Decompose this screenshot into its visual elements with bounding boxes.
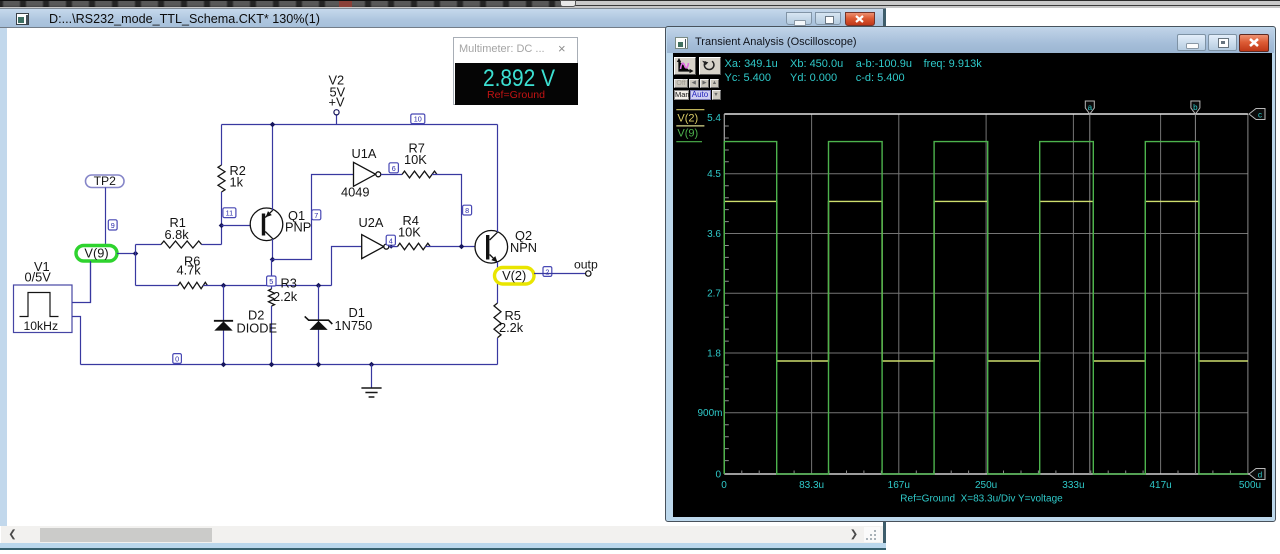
wire V(9) down to V1	[90, 261, 92, 302]
wire TP2 down	[105, 188, 107, 246]
wire V1 bottom to ground rail	[72, 317, 81, 365]
svg-text:83.3u: 83.3u	[799, 480, 824, 491]
svg-text:V(9): V(9)	[677, 128, 698, 140]
label V(9)	[76, 246, 117, 262]
wire Q1 collector down	[272, 239, 274, 260]
svg-text:0: 0	[175, 355, 179, 364]
node 6	[389, 163, 398, 173]
right edge	[883, 9, 886, 550]
junction U2A output pin	[389, 245, 393, 249]
flag c	[1249, 109, 1265, 120]
junction D1 top	[316, 283, 322, 289]
client area	[0, 28, 884, 526]
right frame	[1247, 114, 1249, 474]
node 9	[108, 220, 117, 230]
wire D1 branch	[318, 286, 320, 365]
node 0	[173, 354, 182, 364]
svg-text:4.5: 4.5	[707, 169, 721, 180]
power terminal +V	[329, 73, 346, 125]
svg-text:417u: 417u	[1149, 480, 1171, 491]
wire collector to U1A input	[273, 175, 354, 260]
svg-text:NPN: NPN	[510, 240, 537, 255]
svg-text:4: 4	[389, 236, 393, 245]
resistor R2	[218, 163, 246, 192]
svg-text:11: 11	[226, 209, 233, 218]
wire R3 riser	[271, 260, 273, 290]
svg-text:PNP: PNP	[285, 220, 311, 235]
svg-text:10kHz: 10kHz	[24, 319, 59, 333]
gridlines horizontal	[724, 174, 1248, 413]
svg-text:2.2k: 2.2k	[499, 320, 524, 335]
wire R4 out to Q2 base	[426, 246, 487, 248]
wire U2A out to R4	[389, 246, 398, 248]
bottom border	[0, 543, 886, 549]
svg-text:167u: 167u	[888, 480, 910, 491]
transistor Q1	[250, 208, 311, 241]
cursor c line / top frame	[724, 113, 1248, 115]
wire U1A out to R7	[381, 174, 402, 176]
y labels	[697, 113, 722, 481]
cursor readouts	[725, 58, 778, 70]
svg-text:5V: 5V	[330, 85, 346, 100]
svg-text:333u: 333u	[1062, 480, 1084, 491]
window buttons	[1177, 34, 1206, 51]
svg-text:U1A: U1A	[352, 146, 377, 161]
svg-text:2.7: 2.7	[707, 289, 721, 300]
wire Q2 collector to rail	[497, 125, 499, 233]
resistor R3	[269, 276, 298, 307]
junction ground gnd	[369, 362, 375, 368]
svg-text:10K: 10K	[398, 225, 421, 240]
x labels	[721, 480, 1261, 491]
transistor Q2	[475, 228, 537, 263]
svg-text:500u: 500u	[1239, 480, 1261, 491]
svg-text:Ref=Ground: Ref=Ground	[487, 89, 545, 101]
svg-text:5.4: 5.4	[707, 113, 721, 124]
svg-text:250u: 250u	[975, 480, 997, 491]
svg-text:outp: outp	[574, 258, 598, 272]
wire mid row	[203, 285, 331, 287]
resistor R5	[494, 303, 524, 338]
junction rail emitter	[270, 122, 276, 128]
source V1	[14, 259, 73, 333]
svg-text:10K: 10K	[404, 152, 427, 167]
svg-text:4049: 4049	[341, 185, 369, 200]
svg-text:0: 0	[721, 480, 727, 491]
flag d	[1249, 469, 1265, 480]
gridlines vertical	[812, 114, 1161, 474]
flag b	[1191, 101, 1200, 114]
title text	[49, 12, 320, 26]
zener D1	[305, 305, 373, 333]
junction D2 top	[221, 283, 227, 289]
svg-text:a: a	[1088, 103, 1093, 112]
wire top +V rail	[222, 124, 498, 126]
wire V(9) riser	[135, 245, 137, 286]
x axis ticks	[742, 471, 1231, 475]
svg-text:10: 10	[414, 115, 422, 124]
svg-text:9: 9	[111, 221, 115, 230]
svg-text:6.8k: 6.8k	[165, 227, 190, 242]
svg-text:3.6: 3.6	[707, 229, 721, 240]
wire Q1 base	[222, 225, 262, 227]
svg-text:5: 5	[269, 277, 273, 286]
svg-text:b: b	[1193, 103, 1198, 112]
node 2	[543, 267, 552, 277]
svg-text:V(2): V(2)	[502, 268, 526, 283]
node 8	[463, 205, 472, 215]
wire V1 top output	[72, 261, 91, 302]
svg-text:Ref=Ground X=83.3u/Div Y=volt: Ref=Ground X=83.3u/Div Y=voltage	[900, 494, 1063, 505]
svg-text:6: 6	[392, 164, 396, 173]
svg-text:1N750: 1N750	[335, 318, 373, 333]
diode D2	[214, 308, 277, 336]
svg-text:V(2): V(2)	[677, 113, 698, 125]
wire R5 bottom	[497, 338, 499, 365]
node 4	[386, 235, 395, 245]
wire R6 left lead	[136, 285, 179, 287]
legend V(2)	[676, 110, 704, 126]
svg-text:1.8: 1.8	[707, 349, 721, 360]
window icon	[16, 13, 29, 25]
trace V(2) yellow	[724, 201, 1248, 474]
wire V(9) right	[117, 253, 136, 255]
inverter U1A	[341, 146, 381, 200]
x axis	[724, 473, 1251, 475]
node 10	[411, 114, 425, 124]
svg-text:DIODE: DIODE	[237, 321, 278, 336]
wire R1 left lead	[136, 244, 162, 246]
top toolbar strip (cut off)	[0, 0, 1280, 8]
svg-text:2.892 V: 2.892 V	[483, 65, 555, 92]
label V(2)	[495, 268, 535, 285]
wire R2 top lead	[221, 125, 223, 166]
horizontal scrollbar	[1, 526, 883, 543]
node 11	[223, 208, 236, 218]
y axis ticks	[724, 126, 729, 461]
plot	[673, 53, 1272, 517]
cursor b line	[1194, 114, 1196, 474]
junction ground D1	[316, 362, 322, 368]
wire Q2 emitter down to R5	[497, 262, 499, 303]
svg-text:0/5V: 0/5V	[25, 270, 52, 285]
junction V(9) node	[133, 251, 139, 257]
wire R7 to node 8	[432, 175, 462, 247]
resistor R1	[161, 215, 202, 248]
test point TP2	[86, 174, 125, 188]
terminal outp	[574, 258, 598, 277]
min/restore/close buttons (cut)	[786, 12, 812, 25]
svg-text:1k: 1k	[230, 175, 244, 190]
ground	[361, 365, 381, 398]
wire D2 branch	[223, 286, 225, 365]
svg-text:d: d	[1258, 471, 1262, 480]
trace V(9) green	[724, 142, 1248, 474]
resistor R7	[402, 141, 437, 178]
scope icon	[675, 37, 688, 49]
y axis	[723, 114, 725, 474]
wire R3 bottom	[271, 306, 273, 365]
wire U2A input riser	[332, 247, 362, 286]
wire Q1 emitter to rail	[272, 125, 274, 211]
black client	[673, 53, 1272, 517]
svg-text:TP2: TP2	[94, 174, 117, 188]
junction collector node	[270, 257, 276, 263]
svg-text:8: 8	[465, 206, 469, 215]
svg-text:2.2k: 2.2k	[273, 289, 298, 304]
title bar	[667, 28, 1274, 53]
svg-text:2: 2	[545, 268, 549, 277]
node 5	[267, 276, 276, 286]
svg-text:0: 0	[715, 470, 721, 481]
svg-text:7: 7	[314, 211, 318, 220]
node 7	[312, 210, 321, 220]
junction node 8 meets R4	[459, 244, 465, 250]
wire R1 right lead	[202, 244, 222, 246]
wire R2 bottom to node 11	[221, 192, 223, 245]
title bar	[0, 8, 886, 28]
junction ground R3	[269, 362, 275, 368]
svg-text:V(9): V(9)	[84, 246, 108, 261]
wire to outp terminal	[534, 273, 586, 275]
flag a	[1085, 101, 1094, 114]
junction ground D2	[221, 362, 227, 368]
resistor R6	[177, 254, 208, 289]
resistor R4	[398, 213, 431, 250]
wire ground rail	[81, 364, 498, 366]
svg-text:4.7k: 4.7k	[177, 263, 202, 278]
junction base of Q1 row	[219, 223, 225, 229]
svg-text:c: c	[1258, 111, 1262, 120]
svg-text:900m: 900m	[697, 408, 722, 419]
legend V(9)	[676, 128, 702, 142]
control buttons	[674, 57, 696, 75]
cursor a line	[1089, 114, 1091, 474]
multimeter popup	[453, 37, 578, 105]
svg-text:U2A: U2A	[359, 215, 384, 230]
inverter U2A	[359, 215, 389, 259]
